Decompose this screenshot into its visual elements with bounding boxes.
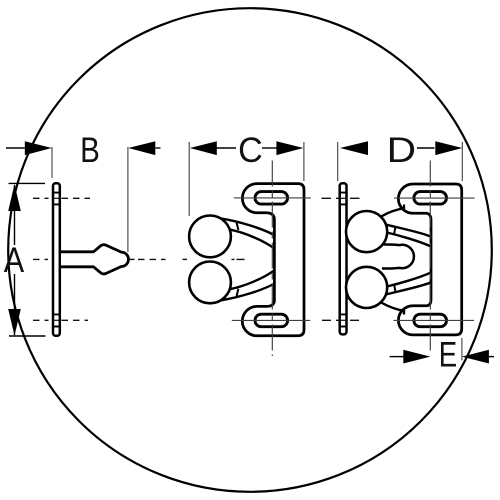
lower arm band line 2 middle view [230, 271, 274, 289]
top slot middle view [255, 192, 288, 205]
dimension B tail right [155, 147, 160, 149]
dimension D line right [417, 147, 435, 149]
top slot centerline right view [394, 197, 475, 199]
strike bar top hole lines [340, 193, 347, 205]
dimension A line upper [14, 185, 16, 245]
svg-text:D: D [387, 131, 416, 170]
dimension C line right [262, 147, 277, 149]
svg-text:A: A [4, 241, 25, 280]
upper arm outer line right view [381, 208, 404, 216]
dimension A arrow up [8, 184, 21, 211]
lower arm band line 1 middle view [220, 284, 274, 301]
dimension C extension left [188, 142, 190, 216]
bottom roller right view [346, 267, 387, 308]
lower band tick middle view [237, 289, 239, 296]
lower band tick right view [394, 284, 396, 292]
bracket plate outline [242, 184, 304, 336]
dimension C arrow right [276, 141, 303, 155]
dimension A line lower [14, 274, 16, 335]
dimension B tail left [6, 147, 25, 149]
dimension E extension right [461, 338, 463, 360]
dimension A extension top [9, 182, 46, 184]
vertical centerline middle view [271, 161, 273, 357]
strike plate top hole lines [53, 193, 60, 205]
bottom slot right view [414, 314, 447, 327]
upper band tick middle view [237, 223, 239, 230]
dimension B arrow right [128, 141, 155, 155]
strike plate bottom hole lines [53, 314, 60, 326]
upper band tick right view [394, 227, 396, 235]
dimension B arrow left [25, 141, 52, 155]
bottom slot centerline middle view [232, 319, 310, 321]
upper arm band line 1 middle view [220, 218, 274, 235]
dimension D extension right [461, 142, 463, 181]
dimension C extension right [303, 142, 305, 181]
centerline bottom hole left view [33, 319, 88, 321]
centerline top hole left view [33, 197, 90, 199]
bottom roller middle view [189, 262, 231, 304]
centerline dashes around strike bar bottom [322, 319, 359, 321]
dimension B extension right [127, 147, 129, 252]
strike stem with bullet tip [61, 245, 128, 274]
top slot right view [414, 192, 447, 205]
strike plate side bar [53, 183, 60, 336]
lower arm band line 1 right view [385, 283, 431, 295]
svg-text:C: C [238, 131, 263, 170]
dimension C arrow left [190, 141, 217, 155]
svg-text:B: B [80, 131, 100, 170]
strike bar right view [340, 183, 347, 334]
centerline dashes around strike bar top [322, 197, 360, 199]
dimension E tail left [390, 356, 404, 358]
dimension D arrow left [340, 141, 368, 155]
upper arm band line 2 middle view [230, 230, 274, 248]
dimension E arrow left [403, 350, 430, 364]
lower arm band line 2 right view [383, 273, 431, 288]
bracket plate outline right view [398, 184, 461, 335]
svg-text:E: E [439, 336, 457, 375]
centerline stem right of tip [129, 258, 135, 260]
dimension E tail right [489, 356, 494, 358]
lower arm outer line right view [381, 302, 404, 310]
upper arm band line 1 right view [385, 224, 431, 236]
dimension D extension left [337, 142, 339, 181]
bottom slot middle view [255, 314, 288, 327]
dimension C line left [217, 147, 237, 149]
centerline stem left of plate [33, 258, 48, 260]
top slot centerline middle view [234, 197, 311, 199]
dimension A extension bottom [9, 335, 46, 337]
tongue right view [382, 244, 414, 268]
dimension E arrow right [462, 350, 489, 364]
dimension D arrow right [435, 141, 462, 155]
top roller middle view [189, 216, 231, 258]
upper arm band line 2 right view [383, 232, 431, 247]
roller centerline dashes middle view [232, 258, 245, 260]
bottom slot centerline right view [394, 319, 475, 321]
strike bar bottom hole lines [340, 314, 347, 326]
vertical centerline right view [429, 161, 431, 353]
dimension A arrow down [8, 309, 21, 336]
dimension B extension left [51, 147, 53, 178]
top roller right view [346, 211, 387, 252]
